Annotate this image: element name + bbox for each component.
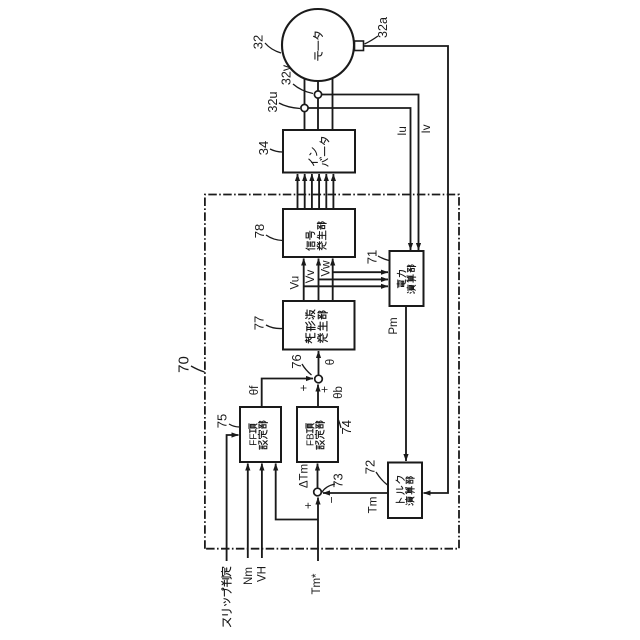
label 77 [252,316,283,330]
signal generator 78 [283,209,355,257]
wire: phase u from inverter to motor [304,79,306,131]
current sensor 32v (circle on phase v) [314,91,321,98]
motor M 32 (circle) [282,9,354,81]
wire: gate signal line 6 from 78 to inverter 34 [332,174,334,209]
svg-text:Iu: Iu [397,126,409,136]
wire: VH input to 75 [261,464,263,559]
label 32 [251,35,281,53]
svg-text:32v: 32v [279,64,293,85]
svg-text:Pm: Pm [388,317,400,334]
svg-text:ΔTm: ΔTm [299,464,311,488]
svg-text:71: 71 [365,250,380,264]
label slip judgement [223,618,231,626]
svg-text:θ: θ [325,359,337,365]
svg-text:78: 78 [252,224,267,238]
label 74 [339,420,355,434]
wire: gate signal line 3 from 78 to inverter 34 [311,174,313,209]
summing junction 73 [314,488,322,496]
label 72 [363,460,388,485]
svg-text:Vw: Vw [321,260,333,277]
current sensor wire Iv to power calculator 71 [318,95,419,251]
wire: junction 76 to rectangular-wave generator 77 (theta) [318,351,320,375]
svg-text:75: 75 [215,414,230,428]
label 32a [365,17,390,44]
svg-text:−: − [325,496,339,503]
label 32u [266,92,300,113]
wire: gate signal line 1 from 78 to inverter 34 [297,174,299,209]
svg-text:32u: 32u [266,92,280,113]
wire: Vw branch down to power calculator 71 [333,271,388,273]
power calculator 71 [390,251,424,306]
wire: phase w from inverter to motor [332,79,334,131]
svg-text:Iv: Iv [421,124,433,133]
wire: Pm from 71 to 72 [405,306,407,461]
wire: Vv branch down to power calculator 71 [319,278,389,280]
torque calculator 72 [388,463,422,519]
dashed boundary box 70 [205,195,459,549]
label 73 [322,473,346,492]
svg-text:+: + [296,384,310,391]
svg-text:76: 76 [289,354,304,368]
svg-text:Vv: Vv [305,270,317,284]
label 70 [175,356,204,373]
svg-text:+: + [317,386,331,393]
svg-text:72: 72 [363,460,378,474]
svg-text:Vu: Vu [290,276,302,290]
wire: resolver 32a feedback to torque calculator 72 [364,46,449,493]
svg-text:73: 73 [331,473,346,487]
wire: gate signal line 4 from 78 to inverter 34 [318,174,320,209]
svg-text:32a: 32a [376,17,390,38]
wire: FB term 74 to junction 76 (theta-b) [317,385,319,408]
svg-text:FB: FB [306,433,317,446]
svg-text:Tm: Tm [367,497,379,514]
wire: Vu from 77 to 78 [303,259,305,302]
svg-text:VH: VH [257,566,269,582]
FB term setting unit 74 [297,407,338,462]
svg-text:32: 32 [251,35,266,49]
wire: FF term 75 to junction 76 (theta-f) [262,379,313,408]
current sensor wire Iu to power calculator 71 [305,108,411,250]
wire: torque command Tm* input to junction 73 [317,498,319,562]
label 76 [289,354,311,375]
inverter 34 [283,130,355,173]
wire: phase v from inverter to motor [317,81,319,130]
wire: Vv from 77 to 78 [318,259,320,302]
wire: junction 73 to FB term setter 74 [317,464,319,488]
svg-text:+: + [301,502,315,509]
FF term setting unit 75 [240,407,281,462]
label 75 [215,414,240,428]
wire: slip judgement input to 75 [227,435,239,561]
wire: Nm input to 75 [247,464,249,559]
label 34 [256,141,282,155]
label 78 [252,224,282,241]
summing junction 76 [315,375,323,383]
svg-text:θf: θf [249,385,261,395]
svg-text:77: 77 [252,316,267,330]
wire: Vu branch down to power calculator 71 [304,285,388,287]
svg-text:34: 34 [256,141,271,155]
wire: Tm from 72 up to junction 73 [323,492,388,494]
label 32v [279,64,313,93]
wire: gate signal line 5 from 78 to inverter 34 [325,174,327,209]
label 71 [365,250,389,264]
svg-text:70: 70 [175,356,192,373]
svg-text:Nm: Nm [243,567,255,585]
svg-text:Tm*: Tm* [311,573,323,595]
wire: Tm* branch to FF term setter 75 [276,464,318,520]
resolver 32a (small square on motor) [355,41,364,51]
wire: Vw from 77 to 78 [332,259,334,302]
svg-text:FF: FF [249,434,260,446]
svg-text:θb: θb [333,386,345,399]
wire: gate signal line 2 from 78 to inverter 34 [304,174,306,209]
rectangular-wave generator 77 [283,301,355,350]
current sensor 32u (circle on phase u) [301,104,308,111]
